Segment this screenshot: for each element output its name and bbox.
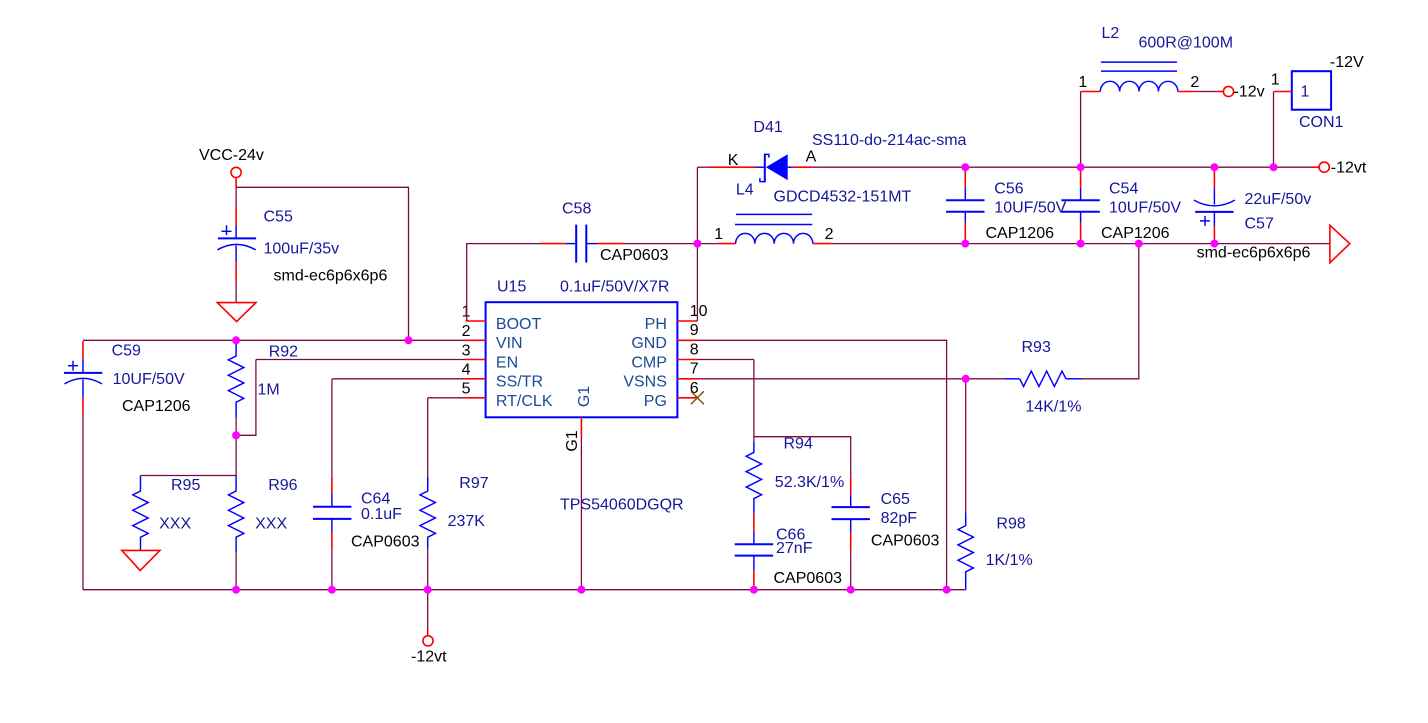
svg-text:600R@100M: 600R@100M [1139,35,1234,52]
resistor R94 [746,441,761,513]
svg-text:GND: GND [631,335,667,352]
svg-text:K: K [728,152,739,169]
wire L2 to -12v terminal [1196,91,1217,93]
wire SS/TR row [332,378,466,380]
svg-text:R93: R93 [1022,339,1051,356]
capacitor C54 [1061,167,1099,243]
svg-text:CAP0603: CAP0603 [774,570,843,587]
svg-text:U15: U15 [497,279,526,296]
pin 9 GND stub [677,339,697,341]
svg-text:C58: C58 [562,201,591,218]
node -12vt right terminal [1312,162,1329,172]
ground under R95 [122,550,160,570]
svg-text:R96: R96 [268,477,297,494]
svg-text:R98: R98 [996,516,1025,533]
svg-text:27nF: 27nF [776,540,813,557]
svg-text:C56: C56 [994,180,1023,197]
svg-text:237K: 237K [448,513,486,530]
svg-text:RT/CLK: RT/CLK [496,393,553,410]
wire C58 right to PH riser [623,243,697,245]
svg-text:8: 8 [690,341,699,358]
svg-text:1: 1 [1078,74,1087,91]
node dot bus C65 [847,586,855,594]
wire PH riser [696,167,698,321]
inductor L4 [717,214,831,243]
node dot G1 row C54 [1077,240,1085,248]
resistor R98 [958,512,973,589]
svg-text:VCC-24v: VCC-24v [199,147,264,164]
pin 8 CMP stub [677,359,697,361]
wire R98 riser [965,379,967,513]
svg-text:CAP1206: CAP1206 [986,225,1055,242]
node dot VIN/VCC riser [405,336,413,344]
svg-text:BOOT: BOOT [496,316,542,333]
node dot G1 row C57 [1210,240,1218,248]
wire R93 to G1 row riser [1082,244,1139,379]
node dot -12vt CON1 [1270,163,1278,171]
svg-text:R92: R92 [269,344,298,361]
off-page arrow G1 [1330,225,1350,262]
wire EN jog [236,360,256,436]
node dot -12vt C57 [1210,163,1218,171]
capacitor C66 [735,531,773,585]
wire BOOT riser to C58 [467,244,540,321]
pin 5 RT/CLK stub [466,397,486,399]
svg-text:SS110-do-214ac-sma: SS110-do-214ac-sma [812,132,967,149]
svg-text:1K/1%: 1K/1% [986,552,1033,569]
capacitor C64 [313,477,351,549]
diode D41 [710,154,812,183]
svg-text:smd-ec6p6x6p6: smd-ec6p6x6p6 [274,268,388,285]
pin 10 PH stub [677,320,697,322]
svg-text:XXX: XXX [255,516,287,533]
wire -12vt top row left to diode K [697,166,710,168]
svg-text:10: 10 [690,303,708,320]
svg-text:1: 1 [1271,72,1280,89]
pin G1 bottom stub [580,417,582,437]
svg-text:VSNS: VSNS [623,374,667,391]
node dot G1 row C56 [961,240,969,248]
svg-text:CAP0603: CAP0603 [351,533,420,550]
wire C64 to bus [331,549,333,590]
pin 1 BOOT stub [466,320,486,322]
node -12vt bottom terminal [423,628,433,646]
pin 2 VIN stub [466,339,486,341]
svg-text:82pF: 82pF [881,510,918,527]
svg-text:G1: G1 [564,430,581,451]
svg-text:CAP0603: CAP0603 [600,247,669,264]
svg-text:R95: R95 [171,477,200,494]
wire RT/CLK row [428,397,466,399]
wire R94 top to C65 [754,437,851,477]
resistor R92 [228,341,243,418]
svg-text:PG: PG [644,393,667,410]
wire G1 row from L4 to arrow [831,243,1329,245]
svg-text:C54: C54 [1109,180,1138,197]
svg-text:VIN: VIN [496,335,523,352]
svg-text:CAP0603: CAP0603 [871,533,940,550]
svg-text:CON1: CON1 [1299,114,1344,131]
svg-text:3: 3 [462,342,471,359]
wire VCC-24v down to C55 [235,187,237,206]
svg-text:10UF/50V: 10UF/50V [994,200,1066,217]
svg-text:A: A [806,149,817,166]
svg-text:0.1uF/50V/X7R: 0.1uF/50V/X7R [560,279,669,296]
svg-text:52.3K/1%: 52.3K/1% [775,474,844,491]
svg-text:TPS54060DGQR: TPS54060DGQR [560,497,684,514]
resistor R93 [1004,371,1081,386]
wire R95 connector [141,475,237,477]
wire R94 riser from CMP [753,360,755,442]
wire bus to -12vt terminal [427,590,429,628]
wire R94 to C66 pin [753,513,755,531]
svg-text:L4: L4 [736,182,754,199]
wire ground bus bottom [83,589,966,591]
svg-text:2: 2 [825,226,834,243]
pin 6 PG stub [677,397,697,399]
svg-text:C55: C55 [264,209,293,226]
svg-text:14K/1%: 14K/1% [1025,398,1081,415]
wire G1 pin to bus [580,437,582,590]
node dot bus G1 pin [577,586,585,594]
svg-text:R94: R94 [784,436,813,453]
wire PH row to L4 [697,243,716,245]
wire CON1 riser [1273,92,1275,168]
wire R92 bottom to EN node [235,418,237,476]
wire -12vt top row [812,166,1312,168]
connector CON1 [1274,71,1331,110]
node dot bus GND riser [943,586,951,594]
resistor R97 [420,477,435,549]
svg-text:G1: G1 [576,386,593,407]
node dot -12vt C54/L2 [1077,163,1085,171]
svg-text:CAP1206: CAP1206 [122,398,191,415]
svg-text:-12v: -12v [1234,84,1265,101]
wire EN row [256,359,466,361]
no-connect X on pin 6 [691,391,704,404]
op-amp U15 TPS54060DGQR body [486,302,678,417]
wire R97 to bus [427,549,429,590]
svg-text:EN: EN [496,354,518,371]
svg-text:9: 9 [690,322,699,339]
svg-text:0.1uF: 0.1uF [361,506,402,523]
capacitor C58 [540,225,623,263]
capacitor C65 [832,477,870,551]
pin 3 EN stub [466,359,486,361]
svg-text:1: 1 [714,226,723,243]
node dot bus R96 [232,586,240,594]
capacitor C55 [217,207,256,283]
resistor R95 [133,476,148,550]
svg-text:SS/TR: SS/TR [496,374,543,391]
capacitor C59 [64,341,102,414]
svg-text:CMP: CMP [631,354,667,371]
pin 4 SS/TR stub [466,378,486,380]
svg-text:PH: PH [645,316,667,333]
wire L2 riser [1080,92,1082,168]
capacitor C56 [946,167,984,243]
wire CMP row [697,359,754,361]
wire C59 to bus [82,414,84,590]
svg-text:C59: C59 [112,343,141,360]
wire GND row [697,340,946,589]
node VCC-24v terminal [231,167,241,187]
wire R96 to bus [235,552,237,590]
ground under C55 [217,303,256,322]
wire C65 to bus [850,551,852,590]
svg-text:1: 1 [1301,84,1310,101]
wire VIN row [83,339,466,341]
svg-text:CAP1206: CAP1206 [1101,225,1170,242]
node dot -12vt C56 [961,163,969,171]
svg-text:2: 2 [1190,74,1199,91]
svg-text:10UF/50V: 10UF/50V [1109,200,1181,217]
svg-text:2: 2 [462,323,471,340]
svg-text:4: 4 [462,362,471,379]
node dot bus C64 [328,586,336,594]
node dot G1 row R93 riser [1135,240,1143,248]
wire VSNS row [697,378,1004,380]
svg-text:GDCD4532-151MT: GDCD4532-151MT [774,189,912,206]
svg-text:-12vt: -12vt [411,649,447,666]
svg-text:7: 7 [690,361,699,378]
svg-text:1M: 1M [258,382,280,399]
svg-text:-12V: -12V [1330,54,1364,71]
wire SS/TR to C64 [331,379,333,477]
svg-text:100uF/35v: 100uF/35v [264,241,340,258]
resistor R96 [228,476,243,553]
svg-text:22uF/50v: 22uF/50v [1245,191,1312,208]
svg-text:C65: C65 [881,491,910,508]
capacitor C57 [1194,167,1235,243]
svg-text:10UF/50V: 10UF/50V [113,371,185,388]
node dot PH row [693,240,701,248]
svg-text:-12vt: -12vt [1331,160,1367,177]
svg-text:C57: C57 [1245,216,1274,233]
node dot bus C66 [750,586,758,594]
node dot R92 bottom EN [232,431,240,439]
wire C55 to ground [235,282,237,302]
wire VCC-24v to VIN riser [236,187,408,340]
svg-text:XXX: XXX [159,516,191,533]
pin 7 VSNS stub [677,378,697,380]
svg-text:R97: R97 [459,475,488,492]
svg-text:L2: L2 [1102,25,1120,42]
node dot bus R97 [424,586,432,594]
svg-text:5: 5 [462,381,471,398]
node dot VIN/R92 [232,336,240,344]
wire C66 to bus [753,585,755,590]
inductor L2 [1081,62,1197,91]
wire RT/CLK to R97 [427,398,429,477]
svg-text:D41: D41 [753,119,782,136]
node dot VSNS/R98/R93 [962,375,970,383]
node -12v terminal [1217,86,1234,96]
